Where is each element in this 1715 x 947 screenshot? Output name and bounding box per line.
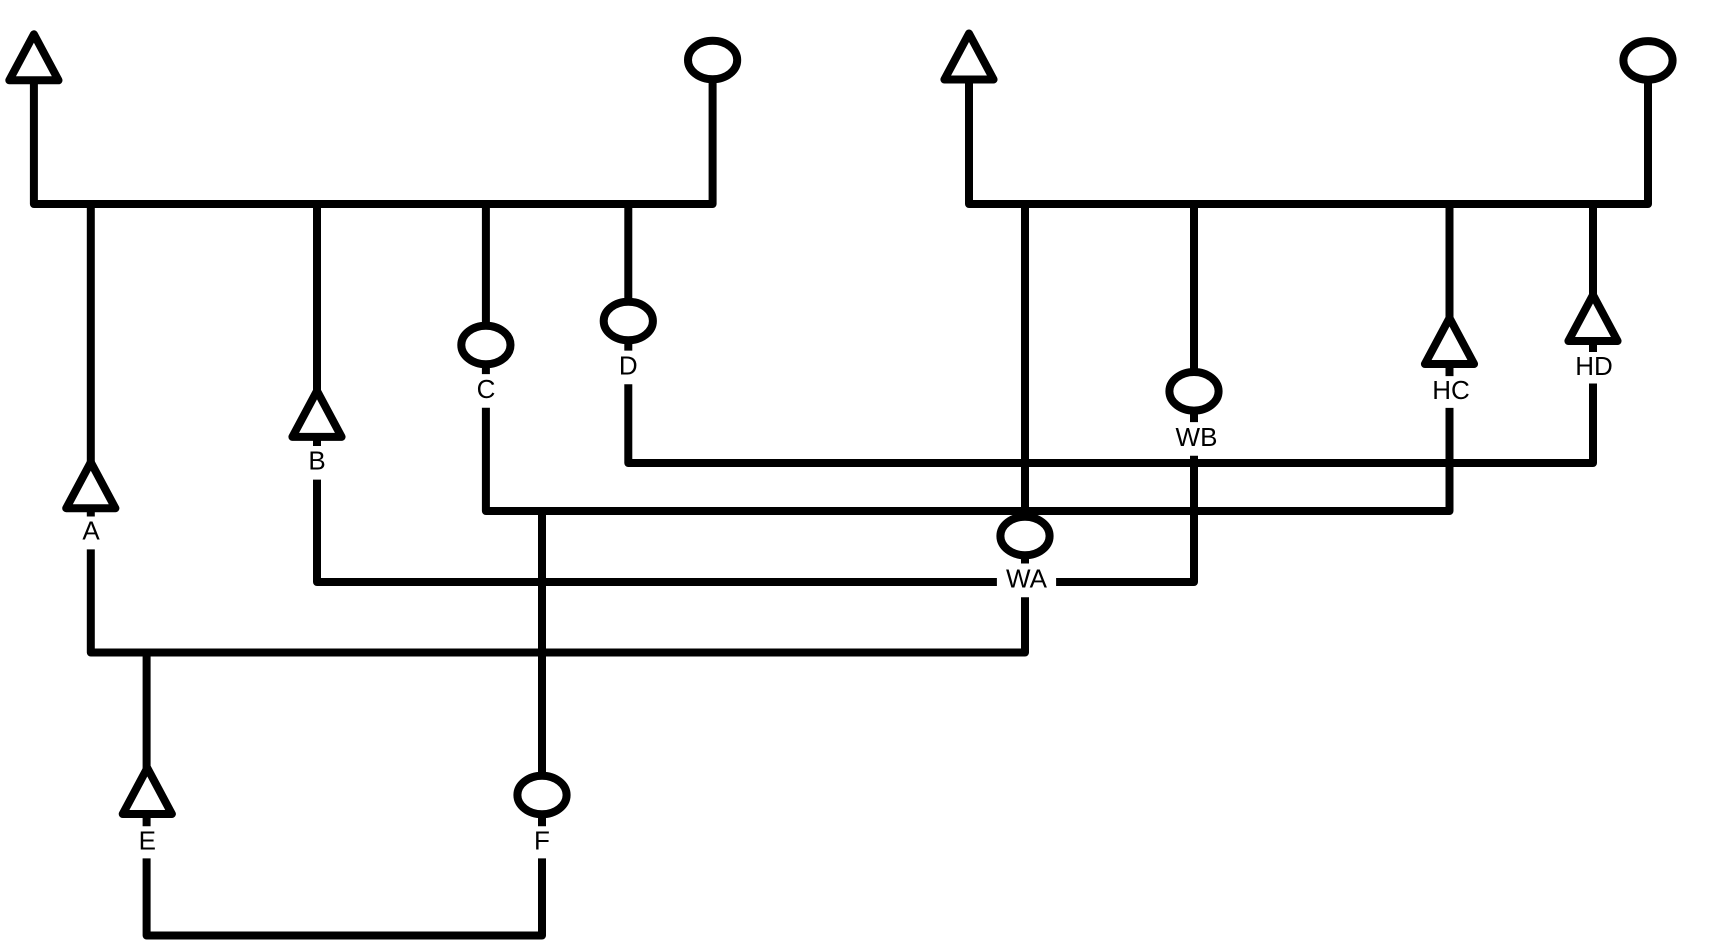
- triangle father family1: [9, 34, 58, 80]
- svg-text:E: E: [139, 826, 156, 856]
- svg-text:HC: HC: [1432, 375, 1470, 405]
- ellipse F: [517, 776, 566, 815]
- wire drop to F: [538, 511, 546, 826]
- wire marriage D-HD: [628, 384, 1593, 464]
- wire drop to HC: [1446, 204, 1454, 376]
- triangle HC: [1425, 318, 1474, 364]
- wire drop to WA: [1021, 204, 1029, 564]
- wire family1 parents and sibship line: [34, 79, 713, 204]
- ellipse WB: [1169, 372, 1218, 411]
- ellipse mother family1: [688, 41, 737, 80]
- wire drop to E: [143, 653, 151, 827]
- wire family2 parents and sibship line: [969, 78, 1648, 204]
- wire marriage A-WA: [91, 549, 1025, 652]
- svg-text:WA: WA: [1006, 563, 1048, 593]
- wire marriage E-F: [147, 858, 542, 935]
- svg-text:C: C: [477, 374, 496, 404]
- wire drop to HD: [1589, 204, 1597, 352]
- wire drop to B: [313, 204, 321, 446]
- svg-text:A: A: [82, 516, 100, 546]
- wire drop to A: [87, 204, 95, 517]
- svg-text:B: B: [308, 446, 325, 476]
- ellipse WA: [1000, 517, 1049, 556]
- svg-text:D: D: [619, 351, 638, 381]
- triangle HD: [1568, 295, 1617, 341]
- svg-text:F: F: [534, 826, 550, 856]
- wire drop to WB: [1190, 204, 1198, 422]
- ellipse C: [461, 326, 510, 365]
- wire marriage B-WB right part: [1056, 456, 1194, 582]
- ellipse mother family2: [1623, 41, 1672, 80]
- triangle E: [123, 768, 172, 814]
- wire drop to D: [624, 204, 632, 351]
- wire drop to C: [482, 204, 490, 374]
- triangle father family2: [944, 34, 993, 80]
- triangle A: [66, 462, 115, 508]
- triangle B: [292, 391, 341, 437]
- wire marriage B-WB left part: [317, 480, 997, 582]
- ellipse D: [604, 302, 653, 341]
- svg-text:HD: HD: [1575, 351, 1613, 381]
- wire marriage C-HC: [486, 408, 1450, 511]
- svg-text:WB: WB: [1176, 422, 1218, 452]
